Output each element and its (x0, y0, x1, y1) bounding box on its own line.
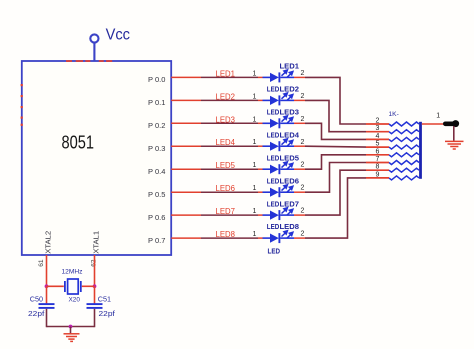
wire LED5 cathode to RN pin 6 (305, 155, 366, 169)
wire C50 bottom lead (46, 309, 48, 327)
red stub after LED4 (294, 145, 305, 147)
junction node at XTAL1/crystal (93, 284, 97, 288)
svg-text:LED7: LED7 (280, 199, 300, 208)
svg-text:LED4: LED4 (216, 138, 236, 147)
wire LED2 cathode to RN pin 3 (305, 100, 366, 131)
red stub pin 3 (366, 131, 389, 133)
wire ground stem (70, 327, 72, 334)
svg-text:LED: LED (267, 130, 280, 139)
resistor network RN1 1K- (366, 111, 421, 180)
svg-text:1: 1 (253, 185, 257, 192)
wire LED6 cathode to RN pin 7 (305, 163, 366, 193)
junction node at XTAL2/crystal (45, 284, 49, 288)
svg-text:8051: 8051 (62, 133, 95, 153)
LED D7 symbol (263, 208, 295, 220)
wire connector to ground (453, 126, 455, 141)
svg-text:22pf: 22pf (28, 309, 45, 318)
svg-text:C50: C50 (30, 294, 43, 303)
LED D6 symbol (263, 185, 295, 197)
svg-text:LED1: LED1 (280, 62, 300, 71)
svg-text:2: 2 (301, 162, 305, 169)
svg-text:LED5: LED5 (216, 161, 236, 170)
svg-text:LED2: LED2 (280, 85, 300, 94)
LED D2 symbol (263, 93, 295, 105)
wire XTAL1 pin to crystal (94, 255, 96, 286)
svg-text:LED: LED (267, 199, 280, 208)
svg-text:LED7: LED7 (216, 207, 236, 216)
capacitor C50 (39, 304, 55, 308)
red stub after LED2 (294, 99, 305, 101)
svg-text:LED6: LED6 (216, 184, 236, 193)
red stub pin 7 (366, 162, 389, 164)
resistor element pin 9 (389, 176, 419, 180)
red stub after LED1 (294, 76, 305, 78)
resistor element pin 4 (389, 137, 419, 141)
svg-text:LED: LED (267, 153, 280, 162)
resistor element pin 3 (389, 130, 419, 134)
svg-text:22pf: 22pf (99, 309, 116, 318)
svg-text:LED3: LED3 (216, 115, 236, 124)
red stub pin 5 (366, 146, 389, 148)
wire net LED5 from P0.4 to LED5 anode (171, 168, 262, 170)
LED D5 symbol (263, 162, 295, 174)
common bus bar (419, 122, 422, 179)
svg-text:2: 2 (301, 139, 305, 146)
svg-text:X20: X20 (69, 296, 81, 303)
svg-text:1: 1 (436, 113, 440, 120)
svg-text:P 0.3: P 0.3 (148, 144, 165, 153)
IC hidden-pin red ticks on top edge (66, 60, 112, 62)
svg-text:LED: LED (267, 85, 280, 94)
red stub pin 6 (366, 154, 389, 156)
svg-text:LED3: LED3 (280, 108, 300, 117)
svg-text:LED: LED (267, 222, 280, 231)
wire XTAL2 pin to crystal (46, 255, 48, 286)
svg-text:C51: C51 (98, 294, 111, 303)
wire C51 bottom lead (94, 309, 96, 327)
wire LED1 cathode to RN pin 2 (305, 77, 366, 124)
resistor element pin 6 (389, 153, 419, 157)
wire LED4 cathode to RN pin 5 (305, 145, 366, 148)
svg-text:LED4: LED4 (280, 130, 300, 139)
resistor element pin 5 (389, 145, 419, 149)
red stub pin 9 (366, 177, 389, 179)
svg-text:1: 1 (253, 93, 257, 100)
wire net LED2 from P0.1 to LED2 anode (171, 99, 262, 101)
svg-text:2: 2 (301, 70, 305, 77)
wire bottom ground bus (47, 326, 95, 328)
svg-text:LED5: LED5 (280, 153, 300, 162)
svg-text:12MHz: 12MHz (62, 269, 83, 276)
crystal X20 symbol (65, 279, 81, 294)
connector blob J1 (443, 120, 459, 127)
svg-text:1: 1 (253, 231, 257, 238)
svg-text:LED: LED (268, 247, 281, 256)
svg-text:61: 61 (38, 259, 45, 267)
wire net LED7 from P0.6 to LED7 anode (171, 214, 262, 216)
wire net LED4 from P0.3 to LED4 anode (171, 145, 262, 147)
power symbol Vcc (90, 26, 130, 61)
svg-text:2: 2 (301, 93, 305, 100)
svg-text:LED: LED (267, 108, 280, 117)
LED D3 symbol (263, 116, 295, 128)
LED D1 symbol (263, 70, 295, 82)
red stub after LED5 (294, 168, 305, 170)
svg-text:1: 1 (253, 162, 257, 169)
wire net LED1 from P0.0 to LED1 anode (171, 76, 262, 78)
svg-text:XTAL1: XTAL1 (93, 231, 100, 254)
svg-text:LED1: LED1 (216, 69, 236, 78)
wire LED3 cathode to RN pin 4 (305, 123, 366, 139)
svg-text:LED2: LED2 (216, 92, 236, 101)
resistor element pin 8 (389, 168, 419, 172)
svg-text:1: 1 (253, 208, 257, 215)
svg-text:2: 2 (301, 231, 305, 238)
svg-text:P 0.1: P 0.1 (148, 98, 165, 107)
wire crystal left lead (47, 285, 64, 287)
svg-text:2: 2 (301, 185, 305, 192)
red stub pin 8 (366, 169, 389, 171)
IC hidden-pin red ticks on left edge (21, 84, 23, 126)
junction node at ground tap (69, 325, 73, 329)
svg-text:LED8: LED8 (216, 230, 236, 239)
svg-text:1: 1 (253, 116, 257, 123)
svg-text:P 0.7: P 0.7 (148, 236, 165, 245)
IC 8051 body (22, 61, 171, 255)
red stub after LED7 (294, 214, 305, 216)
wire C50 top lead (46, 286, 48, 303)
svg-text:2: 2 (301, 116, 305, 123)
svg-text:2: 2 (301, 208, 305, 215)
wire crystal right lead (82, 285, 95, 287)
capacitor C51 (87, 304, 103, 308)
svg-text:P 0.0: P 0.0 (148, 75, 165, 84)
svg-text:P 0.6: P 0.6 (148, 213, 165, 222)
red stub pin 4 (366, 138, 389, 140)
wire net LED8 from P0.7 to LED8 anode (171, 237, 262, 239)
red stub after LED3 (294, 122, 305, 124)
wire net LED6 from P0.5 to LED6 anode (171, 191, 262, 193)
svg-text:1: 1 (253, 70, 257, 77)
svg-text:LED8: LED8 (280, 222, 300, 231)
red stub after LED6 (294, 191, 305, 193)
svg-text:P 0.4: P 0.4 (148, 167, 165, 176)
red stub after LED8 (294, 237, 305, 239)
wire net LED3 from P0.2 to LED3 anode (171, 122, 262, 124)
wire LED8 cathode to RN pin 9 (305, 178, 366, 238)
LED D4 symbol (263, 139, 295, 151)
ground symbol (right) (445, 141, 464, 149)
svg-text:1: 1 (253, 139, 257, 146)
svg-text:LED: LED (267, 176, 280, 185)
svg-text:1K-: 1K- (389, 111, 399, 118)
ground symbol (left) (64, 334, 80, 342)
wire RN pin1 to connector (422, 123, 444, 125)
svg-text:P 0.2: P 0.2 (148, 121, 165, 130)
svg-text:Vcc: Vcc (106, 26, 130, 43)
svg-text:XTAL2: XTAL2 (46, 231, 53, 254)
svg-text:P 0.5: P 0.5 (148, 190, 165, 199)
resistor element pin 2 (389, 122, 419, 126)
resistor element pin 7 (389, 161, 419, 165)
svg-text:LED6: LED6 (280, 176, 300, 185)
wire C51 top lead (94, 286, 96, 303)
LED D8 symbol (263, 231, 295, 243)
wire LED7 cathode to RN pin 8 (305, 170, 366, 215)
red stub pin 2 (366, 123, 389, 125)
